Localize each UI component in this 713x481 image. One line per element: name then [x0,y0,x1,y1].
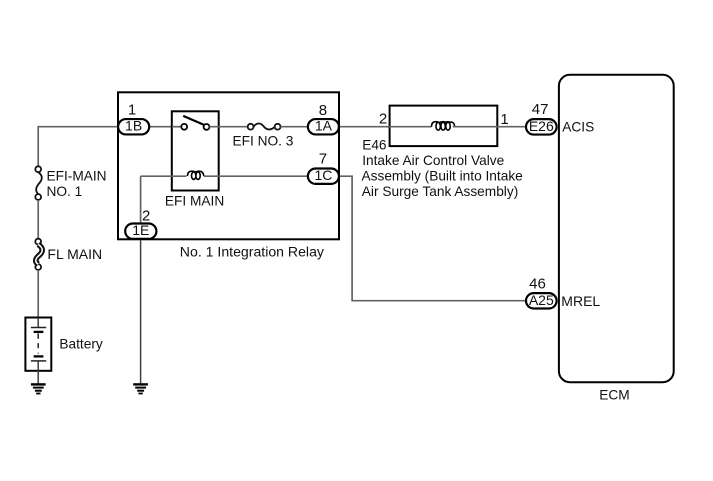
svg-text:2: 2 [379,111,387,128]
svg-text:E26: E26 [529,118,554,134]
fuse EFI NO. 3 [248,123,281,129]
svg-text:Intake Air Control Valve: Intake Air Control Valve [362,153,504,168]
wire: between fuse EFI-MAIN and FL MAIN [37,200,39,239]
pin 1A [308,118,339,135]
wire: fuse EFI NO. 3 to 1A [281,126,308,128]
wire: 1E to ground G2 [140,240,142,383]
svg-text:1: 1 [128,102,136,119]
svg-text:1B: 1B [125,118,142,134]
ground G1 (battery) [31,384,46,393]
wire: 1C to MREL run [340,176,526,301]
svg-text:Air Surge Tank Assembly): Air Surge Tank Assembly) [362,184,518,199]
pin 1E [125,222,156,239]
svg-text:2: 2 [142,208,150,225]
svg-text:1C: 1C [314,167,332,183]
wire: 1A to valve box [340,126,389,128]
svg-text:EFI MAIN: EFI MAIN [165,194,224,209]
svg-text:47: 47 [532,101,549,118]
svg-text:EFI-MAIN: EFI-MAIN [47,169,107,184]
pin 1B [118,118,149,135]
svg-text:No. 1 Integration Relay: No. 1 Integration Relay [180,243,325,259]
valve box E46 Intake Air Control Valve [390,106,498,147]
wire: inner box left to switch contact [172,126,181,128]
relay box No. 1 Integration Relay [118,92,339,239]
wire: battery feed horizontal to 1B [38,127,117,167]
wire: vertical drop to 1E [140,176,142,222]
wire: coil to 1C [204,175,307,177]
relay switch arm [183,116,204,125]
svg-text:Assembly (Built into Intake: Assembly (Built into Intake [362,169,523,184]
battery [25,318,51,372]
fusible link FL MAIN [35,239,42,270]
svg-text:E46: E46 [362,138,387,153]
svg-text:ACIS: ACIS [562,119,594,134]
wire: switch to inner box right and on to fuse EFI NO. 3 [209,126,247,128]
wire: 1B to relay inner box [150,126,172,128]
wire: battery to ground [37,371,39,383]
valve coil [431,122,454,131]
svg-text:8: 8 [319,102,327,119]
wire: relay coil row (from down-corner to 1C) [141,175,187,177]
svg-text:ECM: ECM [599,388,629,403]
relay switch contacts [181,124,209,130]
wire: valve box left segment to coil [389,126,432,128]
svg-text:Battery: Battery [59,337,103,352]
svg-text:NO. 1: NO. 1 [47,184,83,199]
fuse EFI-MAIN NO. 1 [35,166,42,200]
svg-text:1A: 1A [315,118,333,134]
svg-text:A25: A25 [529,292,554,308]
ground G2 (1E) [133,384,148,393]
relay coil EFI MAIN [187,171,204,179]
ECM box [559,75,674,382]
relay inner box EFI MAIN [172,111,219,190]
svg-text:MREL: MREL [561,293,600,309]
wire: FL MAIN to battery [37,270,39,317]
svg-text:7: 7 [319,150,327,167]
pin A25 [526,292,557,309]
svg-text:EFI NO. 3: EFI NO. 3 [233,133,294,148]
svg-text:1: 1 [500,111,508,128]
pin E26 [526,118,557,135]
svg-text:FL MAIN: FL MAIN [47,246,102,262]
pin 1C [308,167,339,184]
svg-text:46: 46 [529,275,546,292]
wire: coil to valve box right and to E26 [453,126,525,128]
